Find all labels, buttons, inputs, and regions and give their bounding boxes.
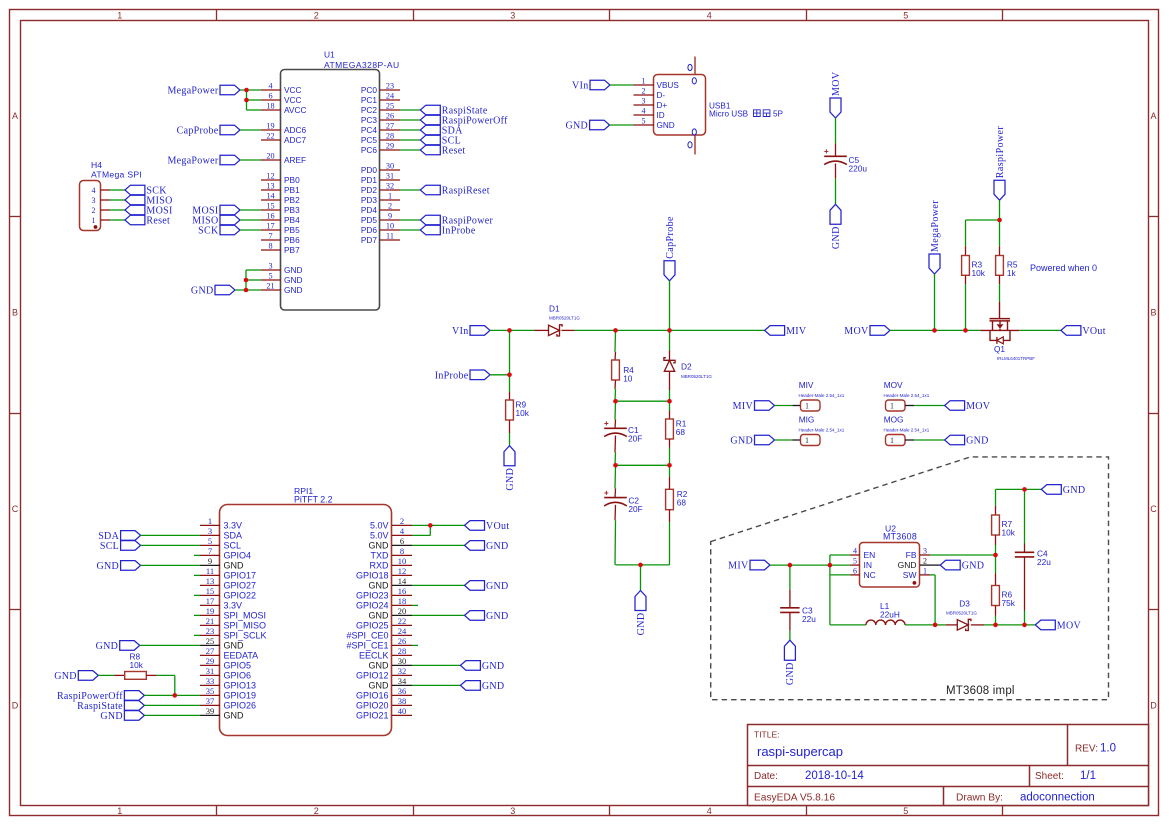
svg-text:GND: GND [482, 681, 505, 692]
svg-text:PD6: PD6 [361, 225, 378, 235]
svg-text:MT3608 impl: MT3608 impl [946, 685, 1015, 697]
svg-text:GND: GND [369, 541, 390, 551]
svg-text:MOG: MOG [884, 414, 904, 424]
svg-text:27: 27 [206, 646, 215, 656]
svg-text:B: B [1150, 307, 1156, 317]
svg-text:InProbe: InProbe [442, 226, 476, 237]
svg-text:PB4: PB4 [284, 215, 300, 225]
svg-text:10k: 10k [516, 408, 530, 418]
svg-text:REV:: REV: [1075, 744, 1098, 755]
svg-text:H4: H4 [91, 160, 102, 170]
svg-text:220u: 220u [849, 164, 868, 174]
svg-text:2: 2 [314, 10, 319, 20]
svg-text:34: 34 [398, 676, 407, 686]
svg-text:SPI_MISO: SPI_MISO [224, 621, 267, 631]
svg-text:13: 13 [206, 576, 215, 586]
svg-text:27: 27 [386, 122, 394, 131]
svg-text:GND: GND [505, 468, 516, 491]
svg-text:RaspiReset: RaspiReset [442, 186, 490, 197]
svg-text:14: 14 [266, 192, 274, 201]
svg-text:20F: 20F [628, 434, 642, 444]
svg-text:MIV: MIV [733, 401, 754, 412]
svg-text:3: 3 [642, 97, 646, 106]
svg-text:35: 35 [206, 686, 215, 696]
svg-text:1: 1 [642, 77, 646, 86]
svg-text:D3: D3 [959, 599, 970, 609]
svg-text:8: 8 [268, 242, 272, 251]
svg-text:MT3608: MT3608 [883, 532, 917, 542]
svg-text:Micro USB: Micro USB [709, 110, 749, 119]
svg-text:2: 2 [314, 806, 319, 816]
svg-text:GND: GND [284, 265, 302, 275]
svg-text:25: 25 [206, 636, 215, 646]
svg-text:VBUS: VBUS [657, 81, 680, 90]
svg-text:C: C [12, 504, 19, 514]
svg-text:AREF: AREF [284, 155, 306, 165]
svg-text:20: 20 [266, 152, 274, 161]
svg-text:GND: GND [486, 581, 509, 592]
svg-text:PB6: PB6 [284, 235, 300, 245]
svg-text:GPIO27: GPIO27 [224, 581, 257, 591]
svg-text:GPIO13: GPIO13 [224, 681, 257, 691]
svg-text:PD3: PD3 [361, 195, 378, 205]
svg-text:68: 68 [676, 427, 686, 437]
svg-text:TXD: TXD [371, 551, 390, 561]
svg-text:C: C [1150, 504, 1157, 514]
svg-text:17: 17 [266, 222, 274, 231]
svg-text:PC4: PC4 [361, 125, 378, 135]
svg-text:11: 11 [386, 232, 394, 241]
svg-text:GND: GND [54, 671, 77, 682]
svg-text:InProbe: InProbe [435, 370, 469, 381]
svg-text:Reset: Reset [442, 146, 466, 157]
svg-text:23: 23 [206, 626, 215, 636]
svg-text:5P: 5P [773, 110, 784, 119]
svg-text:GND: GND [284, 285, 302, 295]
svg-text:PD5: PD5 [361, 215, 378, 225]
svg-text:GND: GND [898, 560, 917, 570]
svg-text:7: 7 [268, 232, 272, 241]
svg-text:D+: D+ [657, 101, 668, 110]
svg-text:D-: D- [657, 91, 666, 100]
svg-text:23: 23 [386, 82, 394, 91]
svg-text:MegaPower: MegaPower [167, 86, 218, 97]
svg-text:D2: D2 [681, 362, 692, 372]
svg-text:1: 1 [92, 216, 96, 225]
svg-text:1k: 1k [1007, 268, 1017, 278]
svg-text:MIV: MIV [799, 380, 814, 390]
svg-text:5.0V: 5.0V [370, 521, 389, 531]
svg-text:10: 10 [398, 556, 407, 566]
svg-text:21: 21 [206, 616, 215, 626]
svg-text:4: 4 [92, 186, 96, 195]
svg-text:CapProbe: CapProbe [177, 126, 219, 137]
svg-text:+: + [604, 419, 609, 428]
svg-text:MegaPower: MegaPower [167, 156, 218, 167]
svg-text:PC5: PC5 [361, 135, 378, 145]
svg-text:GPIO24: GPIO24 [356, 601, 389, 611]
svg-text:GND: GND [966, 436, 989, 447]
svg-text:8: 8 [400, 546, 404, 556]
svg-text:11: 11 [206, 566, 214, 576]
svg-text:26: 26 [386, 112, 394, 121]
svg-text:GPIO5: GPIO5 [224, 661, 252, 671]
svg-text:GND: GND [486, 611, 509, 622]
svg-text:25: 25 [386, 102, 394, 111]
svg-text:D: D [1150, 700, 1157, 710]
svg-text:5: 5 [903, 10, 908, 20]
svg-text:MOV: MOV [884, 380, 903, 390]
svg-text:GPIO16: GPIO16 [356, 691, 389, 701]
svg-text:NC: NC [864, 570, 876, 580]
svg-text:3: 3 [92, 196, 96, 205]
svg-text:GND: GND [785, 662, 796, 685]
svg-text:10: 10 [623, 374, 633, 384]
svg-text:PB7: PB7 [284, 245, 300, 255]
svg-text:VCC: VCC [284, 95, 302, 105]
svg-text:1/1: 1/1 [1080, 770, 1096, 782]
svg-text:24: 24 [386, 92, 394, 101]
svg-text:MIV: MIV [786, 326, 807, 337]
svg-text:29: 29 [386, 142, 394, 151]
svg-text:GND: GND [831, 226, 842, 249]
svg-text:22: 22 [398, 616, 407, 626]
svg-text:EEDATA: EEDATA [224, 651, 259, 661]
svg-text:MIG: MIG [799, 414, 815, 424]
svg-text:29: 29 [206, 656, 215, 666]
svg-text:GPIO12: GPIO12 [356, 671, 389, 681]
svg-text:2: 2 [388, 202, 392, 211]
svg-text:GND: GND [566, 121, 589, 132]
svg-text:GND: GND [224, 711, 245, 721]
svg-text:GPIO21: GPIO21 [356, 711, 389, 721]
svg-text:PC3: PC3 [361, 115, 378, 125]
svg-text:4: 4 [268, 82, 272, 91]
svg-text:SW: SW [903, 570, 917, 580]
svg-text:MOV: MOV [831, 71, 842, 96]
svg-text:4: 4 [707, 806, 712, 816]
svg-text:GPIO19: GPIO19 [224, 691, 257, 701]
svg-text:SPI_SCLK: SPI_SCLK [224, 631, 267, 641]
svg-text:GPIO23: GPIO23 [356, 591, 389, 601]
svg-text:GND: GND [96, 641, 119, 652]
svg-text:5: 5 [268, 272, 272, 281]
svg-text:36: 36 [398, 686, 407, 696]
svg-text:1: 1 [923, 566, 927, 575]
svg-text:75k: 75k [1002, 598, 1016, 608]
svg-text:GPIO26: GPIO26 [224, 701, 257, 711]
svg-text:GPIO6: GPIO6 [224, 671, 252, 681]
svg-text:19: 19 [266, 122, 274, 131]
svg-text:GND: GND [284, 275, 302, 285]
svg-text:3: 3 [208, 526, 212, 536]
svg-text:ADC7: ADC7 [284, 135, 307, 145]
svg-text:A: A [12, 111, 18, 121]
svg-text:24: 24 [398, 626, 407, 636]
svg-text:18: 18 [398, 596, 407, 606]
svg-text:13: 13 [266, 182, 274, 191]
svg-text:PB1: PB1 [284, 185, 300, 195]
svg-text:12: 12 [398, 566, 407, 576]
svg-text:GND: GND [636, 613, 647, 636]
svg-text:2: 2 [92, 206, 96, 215]
svg-text:MegaPower: MegaPower [930, 200, 941, 252]
svg-text:Header-Male 2.54_1x1: Header-Male 2.54_1x1 [884, 393, 930, 398]
svg-text:IN: IN [864, 560, 873, 570]
svg-text:TITLE:: TITLE: [754, 730, 780, 740]
svg-text:1.0: 1.0 [1100, 743, 1116, 755]
svg-text:EasyEDA V5.8.16: EasyEDA V5.8.16 [754, 793, 835, 804]
svg-text:22: 22 [266, 132, 274, 141]
svg-text:MBR0520LT1G: MBR0520LT1G [946, 611, 977, 616]
svg-text:1: 1 [805, 402, 809, 411]
svg-text:31: 31 [206, 666, 215, 676]
svg-text:SDA: SDA [224, 531, 243, 541]
svg-text:GPIO18: GPIO18 [356, 571, 389, 581]
svg-text:4: 4 [707, 10, 712, 20]
svg-text:Header-Male 2.54_1x1: Header-Male 2.54_1x1 [884, 428, 930, 433]
svg-text:4: 4 [853, 547, 857, 556]
svg-text:GND: GND [962, 561, 985, 572]
svg-text:GND: GND [224, 641, 245, 651]
svg-text:GND: GND [369, 681, 390, 691]
svg-text:SCL: SCL [224, 541, 242, 551]
svg-text:VOut: VOut [486, 521, 509, 532]
svg-text:PD7: PD7 [361, 235, 378, 245]
svg-text:5: 5 [642, 117, 646, 126]
svg-text:28: 28 [398, 646, 407, 656]
svg-text:Powered when 0: Powered when 0 [1030, 263, 1097, 273]
svg-text:1: 1 [388, 192, 392, 201]
svg-text:PB3: PB3 [284, 205, 300, 215]
svg-text:20F: 20F [628, 504, 642, 514]
svg-text:VIn: VIn [572, 81, 588, 92]
svg-text:A: A [1150, 111, 1156, 121]
svg-text:GND: GND [730, 436, 753, 447]
svg-text:PD2: PD2 [361, 185, 378, 195]
svg-text:PD0: PD0 [361, 165, 378, 175]
svg-text:17: 17 [206, 596, 215, 606]
svg-text:D1: D1 [549, 304, 560, 314]
svg-text:30: 30 [398, 656, 407, 666]
svg-text:2: 2 [642, 87, 646, 96]
svg-text:2: 2 [400, 516, 404, 526]
svg-text:#SPI_CE0: #SPI_CE0 [346, 631, 388, 641]
svg-text:Header-Male 2.54_1x1: Header-Male 2.54_1x1 [799, 428, 845, 433]
svg-text:GPIO25: GPIO25 [356, 621, 389, 631]
svg-text:1: 1 [117, 806, 122, 816]
svg-text:1: 1 [890, 402, 894, 411]
svg-text:68: 68 [677, 498, 687, 508]
svg-text:PB0: PB0 [284, 175, 300, 185]
svg-text:1: 1 [208, 516, 212, 526]
svg-text:ADC6: ADC6 [284, 125, 307, 135]
svg-text:B: B [12, 307, 18, 317]
svg-text:GND: GND [1063, 485, 1086, 496]
svg-text:EN: EN [864, 550, 876, 560]
svg-text:GND: GND [100, 711, 123, 722]
svg-text:14: 14 [398, 576, 407, 586]
svg-text:22u: 22u [1037, 557, 1051, 567]
svg-text:10: 10 [386, 222, 394, 231]
svg-text:raspi-supercap: raspi-supercap [757, 744, 843, 759]
svg-text:GND: GND [97, 561, 120, 572]
svg-text:PiTFT 2.2: PiTFT 2.2 [294, 495, 333, 505]
svg-text:VOut: VOut [1082, 326, 1105, 337]
svg-text:GND: GND [657, 121, 675, 130]
svg-text:3.3V: 3.3V [224, 521, 243, 531]
svg-text:39: 39 [206, 706, 215, 716]
svg-text:GND: GND [224, 561, 245, 571]
svg-text:MOV: MOV [1057, 620, 1082, 631]
svg-text:26: 26 [398, 636, 407, 646]
svg-text:1: 1 [890, 436, 894, 445]
svg-text:31: 31 [386, 172, 394, 181]
svg-text:Q1: Q1 [994, 344, 1005, 354]
svg-text:ATMega SPI: ATMega SPI [91, 170, 142, 180]
svg-text:9: 9 [208, 556, 212, 566]
svg-text:VIn: VIn [452, 326, 468, 337]
svg-text:GND: GND [369, 581, 390, 591]
svg-text:adoconnection: adoconnection [1020, 792, 1095, 804]
svg-text:GPIO4: GPIO4 [224, 551, 252, 561]
svg-text:+: + [824, 147, 829, 156]
svg-text:+: + [604, 488, 609, 497]
svg-text:9: 9 [388, 212, 392, 221]
svg-text:PD4: PD4 [361, 205, 378, 215]
svg-text:AVCC: AVCC [284, 105, 306, 115]
svg-text:PC6: PC6 [361, 145, 378, 155]
svg-text:MBR0520LT1G: MBR0520LT1G [549, 316, 580, 321]
svg-text:SCK: SCK [198, 226, 219, 237]
svg-text:5: 5 [208, 536, 212, 546]
svg-text:MOV: MOV [844, 326, 869, 337]
svg-text:GND: GND [486, 541, 509, 552]
svg-text:GND: GND [369, 611, 390, 621]
svg-text:Reset: Reset [146, 216, 170, 227]
svg-text:2018-10-14: 2018-10-14 [805, 770, 864, 782]
svg-text:GPIO22: GPIO22 [224, 591, 257, 601]
svg-text:3: 3 [268, 262, 272, 271]
svg-text:PB2: PB2 [284, 195, 300, 205]
svg-text:1: 1 [117, 10, 122, 20]
svg-text:28: 28 [386, 132, 394, 141]
svg-text:16: 16 [266, 212, 274, 221]
svg-text:6: 6 [268, 92, 272, 101]
svg-text:PB5: PB5 [284, 225, 300, 235]
svg-text:2: 2 [923, 557, 927, 566]
svg-text:15: 15 [206, 586, 215, 596]
svg-text:3: 3 [510, 806, 515, 816]
svg-text:GPIO20: GPIO20 [356, 701, 389, 711]
svg-text:CapProbe: CapProbe [665, 216, 676, 259]
svg-text:10k: 10k [1002, 528, 1016, 538]
svg-text:3: 3 [923, 547, 927, 556]
svg-text:Sheet:: Sheet: [1035, 771, 1064, 782]
svg-text:5: 5 [853, 557, 857, 566]
svg-text:RXD: RXD [369, 561, 389, 571]
svg-text:16: 16 [398, 586, 407, 596]
svg-text:#SPI_CE1: #SPI_CE1 [346, 641, 388, 651]
svg-text:3.3V: 3.3V [224, 601, 243, 611]
svg-text:1: 1 [805, 436, 809, 445]
svg-text:PD1: PD1 [361, 175, 378, 185]
svg-text:EECLK: EECLK [359, 651, 389, 661]
svg-text:FB: FB [906, 550, 917, 560]
svg-text:21: 21 [266, 282, 274, 291]
svg-text:33: 33 [206, 676, 215, 686]
svg-text:U1: U1 [324, 50, 335, 60]
svg-text:18: 18 [266, 102, 274, 111]
svg-text:5: 5 [903, 806, 908, 816]
svg-text:22u: 22u [802, 614, 816, 624]
svg-text:5.0V: 5.0V [370, 531, 389, 541]
svg-text:4: 4 [642, 107, 646, 116]
svg-text:32: 32 [398, 666, 407, 676]
svg-text:6: 6 [853, 566, 857, 575]
svg-text:D: D [12, 700, 19, 710]
svg-text:Header-Male 2.54_1x1: Header-Male 2.54_1x1 [799, 393, 845, 398]
svg-text:MBR0520LT1G: MBR0520LT1G [681, 374, 712, 379]
svg-text:GND: GND [191, 286, 214, 297]
svg-text:19: 19 [206, 606, 215, 616]
svg-text:12: 12 [266, 172, 274, 181]
svg-text:MIV: MIV [728, 561, 749, 572]
svg-text:10k: 10k [972, 268, 986, 278]
svg-text:RaspiPower: RaspiPower [995, 126, 1006, 179]
svg-text:GND: GND [482, 661, 505, 672]
svg-text:15: 15 [266, 202, 274, 211]
svg-text:Date:: Date: [754, 771, 778, 782]
svg-text:20: 20 [398, 606, 407, 616]
svg-text:MOV: MOV [966, 401, 991, 412]
svg-text:SCL: SCL [100, 541, 119, 552]
svg-text:3: 3 [510, 10, 515, 20]
svg-text:40: 40 [398, 706, 407, 716]
svg-text:Drawn By:: Drawn By: [956, 793, 1003, 804]
svg-text:GND: GND [369, 661, 390, 671]
svg-text:ATMEGA328P-AU: ATMEGA328P-AU [324, 60, 400, 70]
svg-text:IRLML6401TRPBF: IRLML6401TRPBF [997, 356, 1035, 361]
svg-text:37: 37 [206, 696, 215, 706]
svg-text:ID: ID [657, 111, 665, 120]
svg-text:VCC: VCC [284, 85, 302, 95]
svg-text:PC0: PC0 [361, 85, 378, 95]
svg-text:PC1: PC1 [361, 95, 378, 105]
svg-text:22uH: 22uH [880, 609, 900, 619]
svg-text:30: 30 [386, 162, 394, 171]
svg-text:10k: 10k [130, 660, 144, 670]
svg-text:6: 6 [400, 536, 404, 546]
svg-text:GPIO17: GPIO17 [224, 571, 257, 581]
svg-text:7: 7 [208, 546, 212, 556]
svg-text:SPI_MOSI: SPI_MOSI [224, 611, 267, 621]
svg-text:PC2: PC2 [361, 105, 378, 115]
svg-text:38: 38 [398, 696, 407, 706]
svg-text:32: 32 [386, 182, 394, 191]
